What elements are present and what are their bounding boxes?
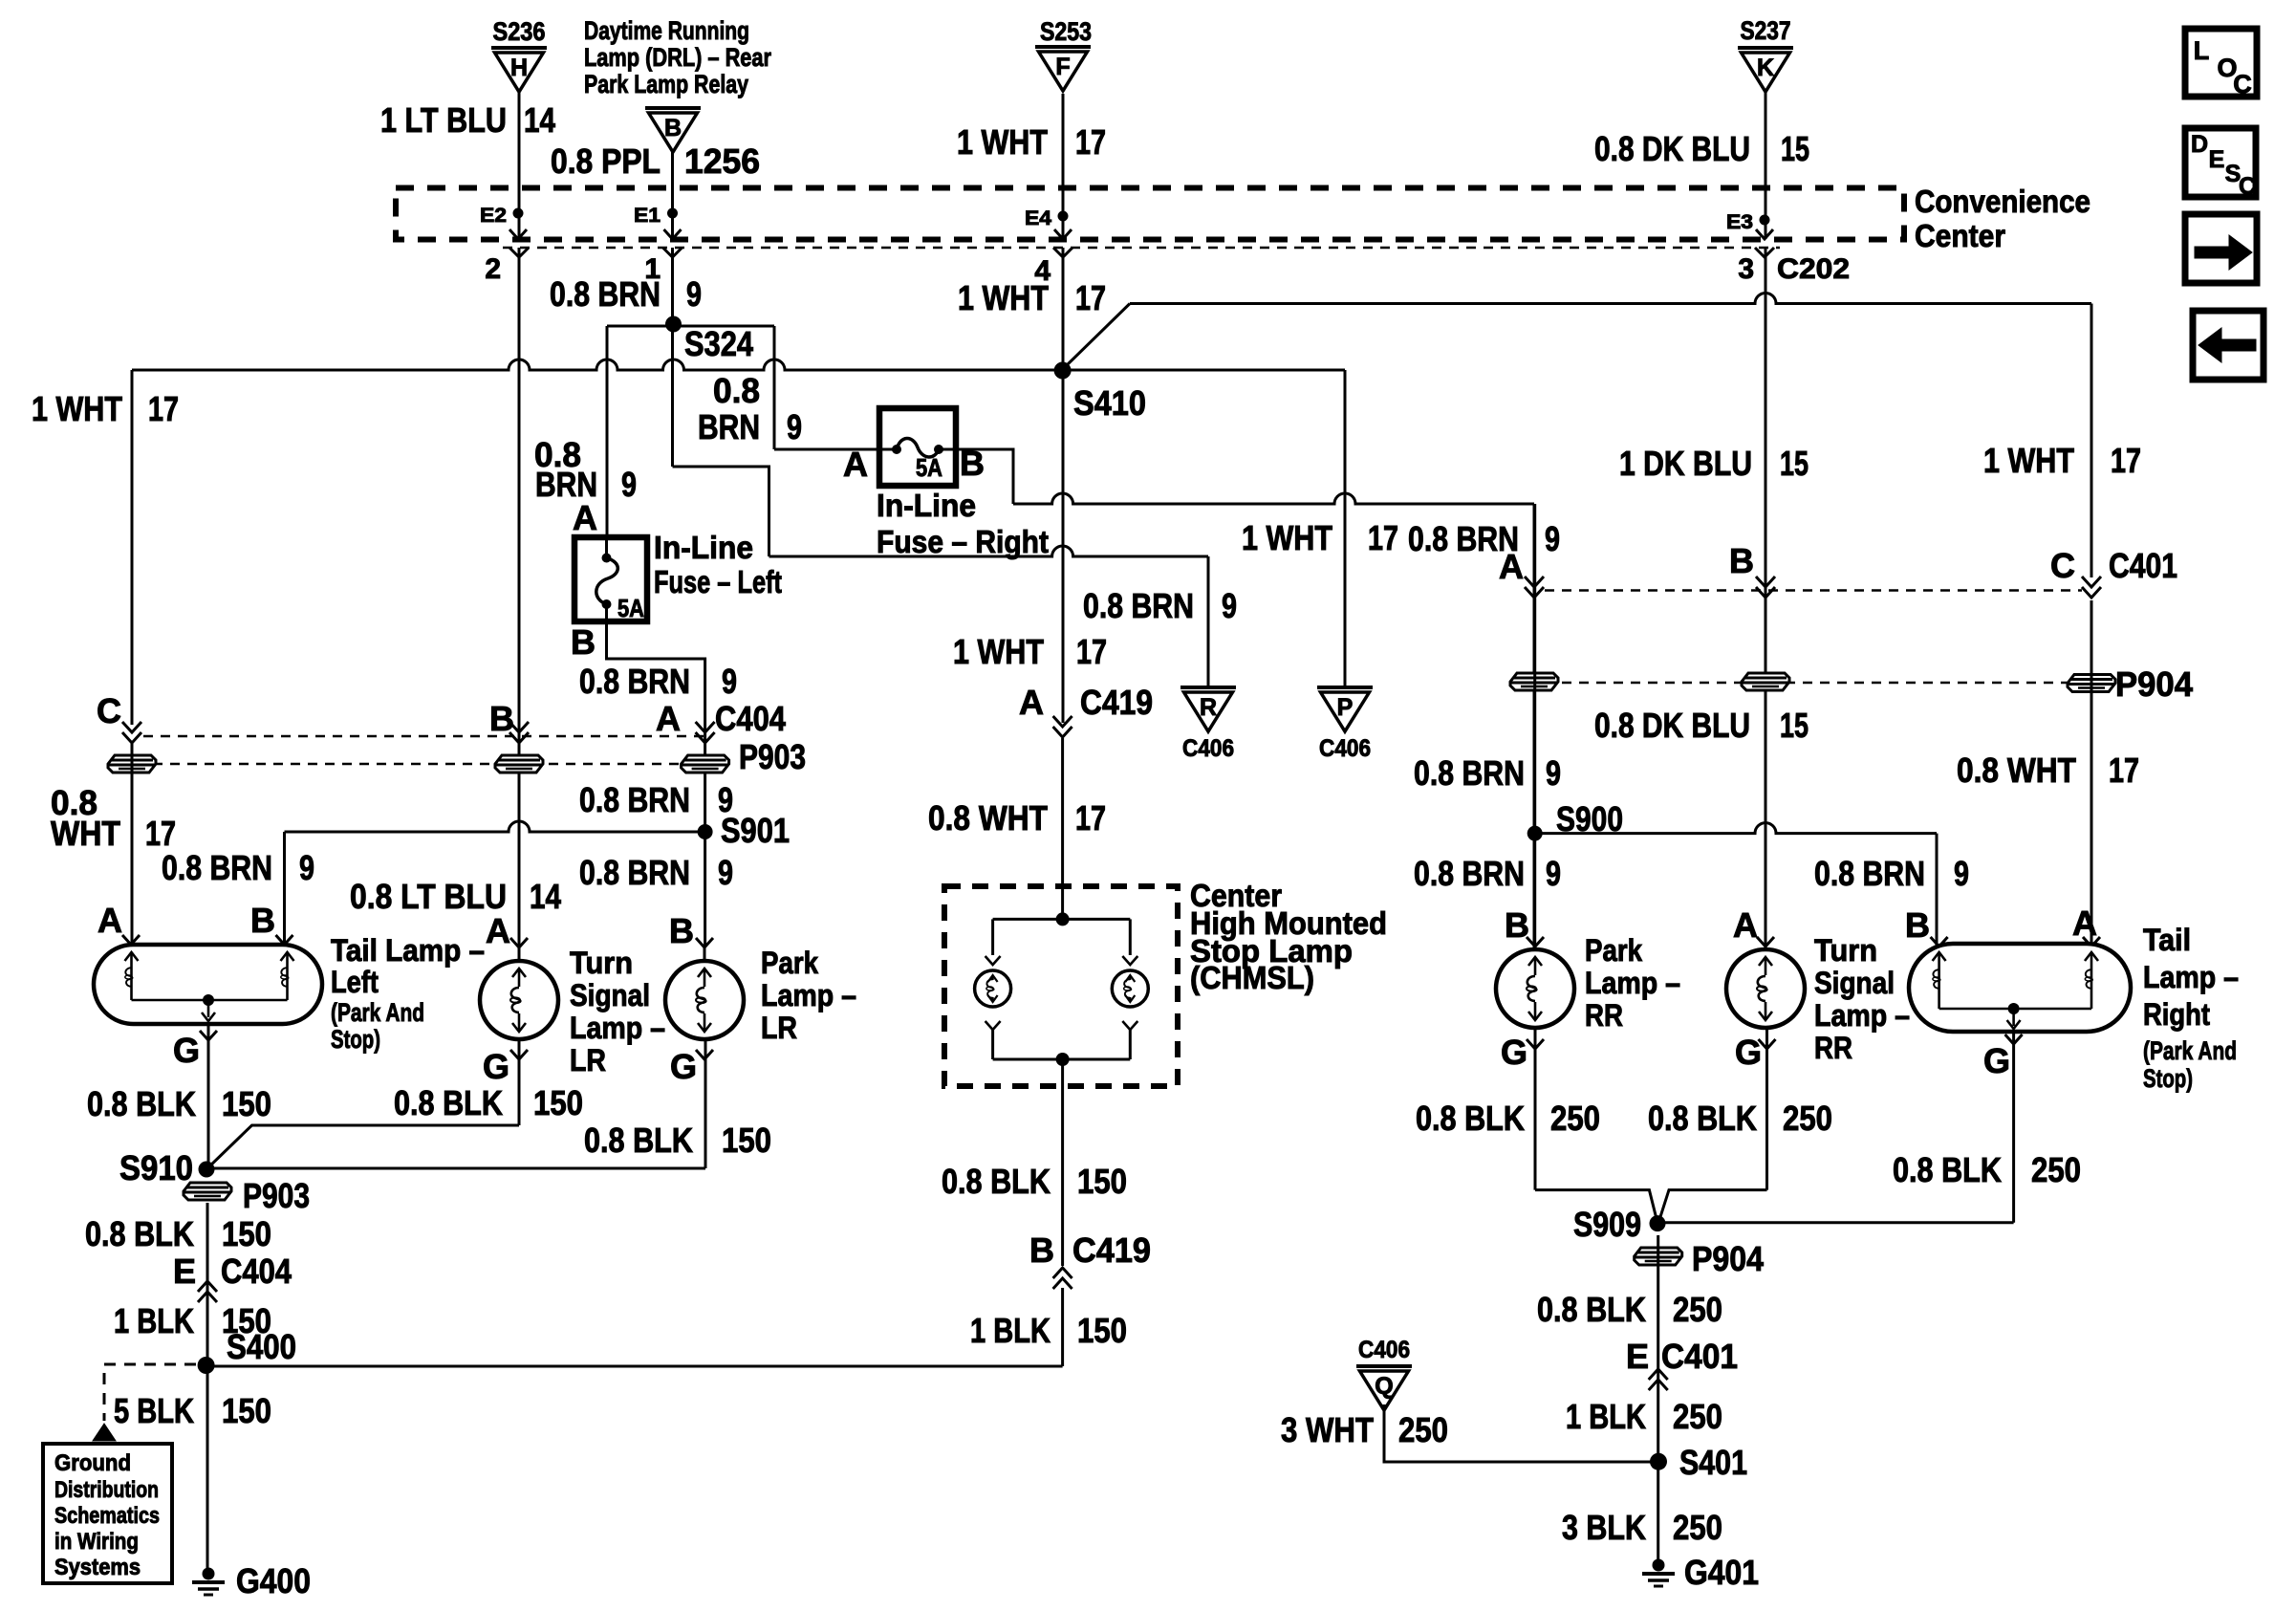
svg-text:B: B bbox=[1505, 905, 1529, 945]
svg-text:0.8 BRN: 0.8 BRN bbox=[1414, 854, 1525, 893]
svg-text:Tail Lamp –: Tail Lamp – bbox=[331, 933, 485, 968]
svg-text:9: 9 bbox=[299, 848, 314, 887]
svg-text:1 DK BLU: 1 DK BLU bbox=[1619, 444, 1752, 483]
svg-text:(Park And: (Park And bbox=[331, 998, 424, 1027]
svg-text:G: G bbox=[1983, 1041, 2010, 1080]
svg-text:17: 17 bbox=[1075, 122, 1106, 162]
svg-text:Stop): Stop) bbox=[331, 1025, 380, 1054]
svg-text:A: A bbox=[1019, 683, 1044, 722]
svg-text:0.8 BLK: 0.8 BLK bbox=[1893, 1150, 2002, 1189]
svg-text:E2: E2 bbox=[480, 205, 507, 227]
svg-text:1256: 1256 bbox=[684, 142, 760, 181]
svg-text:Lamp –: Lamp – bbox=[1814, 998, 1910, 1033]
svg-text:Q: Q bbox=[1375, 1373, 1393, 1400]
svg-text:B: B bbox=[1029, 1230, 1054, 1270]
svg-text:B: B bbox=[250, 901, 275, 940]
svg-text:A: A bbox=[1499, 547, 1524, 586]
svg-text:0.8 WHT: 0.8 WHT bbox=[1957, 751, 2076, 790]
svg-text:0.8 BRN: 0.8 BRN bbox=[162, 848, 272, 887]
svg-text:250: 250 bbox=[1673, 1508, 1722, 1547]
svg-text:250: 250 bbox=[1673, 1290, 1722, 1329]
svg-text:15: 15 bbox=[1780, 444, 1809, 483]
svg-text:E1: E1 bbox=[634, 205, 661, 227]
svg-text:C404: C404 bbox=[221, 1252, 292, 1291]
svg-text:0.8 BRN: 0.8 BRN bbox=[579, 853, 690, 892]
svg-text:0.8 BRN: 0.8 BRN bbox=[550, 274, 661, 314]
svg-text:0.8: 0.8 bbox=[713, 371, 760, 410]
svg-text:(CHMSL): (CHMSL) bbox=[1190, 960, 1314, 995]
svg-text:Signal: Signal bbox=[1814, 966, 1895, 1000]
svg-text:A: A bbox=[656, 699, 681, 738]
svg-text:150: 150 bbox=[222, 1084, 271, 1123]
svg-text:9: 9 bbox=[787, 407, 802, 446]
svg-text:0.8 BRN: 0.8 BRN bbox=[579, 662, 690, 701]
svg-text:A: A bbox=[843, 445, 868, 484]
svg-text:C202: C202 bbox=[1777, 253, 1850, 285]
svg-text:RR: RR bbox=[1585, 998, 1623, 1033]
svg-text:Turn: Turn bbox=[1814, 933, 1877, 968]
svg-text:3: 3 bbox=[1738, 253, 1754, 285]
svg-text:1 WHT: 1 WHT bbox=[1242, 518, 1332, 557]
svg-text:1 LT BLU: 1 LT BLU bbox=[380, 100, 507, 140]
svg-text:S401: S401 bbox=[1679, 1443, 1747, 1482]
svg-text:S324: S324 bbox=[684, 324, 753, 363]
svg-text:C: C bbox=[97, 691, 121, 730]
svg-text:0.8 BLK: 0.8 BLK bbox=[394, 1083, 503, 1122]
svg-text:Fuse – Left: Fuse – Left bbox=[654, 564, 782, 599]
svg-text:P904: P904 bbox=[1692, 1239, 1764, 1278]
svg-text:150: 150 bbox=[222, 1214, 271, 1253]
svg-text:G: G bbox=[173, 1031, 200, 1070]
svg-text:0.8 BLK: 0.8 BLK bbox=[1537, 1290, 1646, 1329]
svg-text:WHT: WHT bbox=[51, 814, 120, 853]
svg-text:5A: 5A bbox=[617, 594, 644, 622]
svg-text:C406: C406 bbox=[1358, 1337, 1410, 1363]
svg-text:C: C bbox=[2233, 70, 2252, 98]
svg-text:1 BLK: 1 BLK bbox=[114, 1301, 194, 1340]
svg-text:P903: P903 bbox=[739, 737, 806, 776]
svg-text:17: 17 bbox=[2111, 441, 2141, 480]
svg-text:150: 150 bbox=[722, 1121, 771, 1160]
svg-text:Lamp –: Lamp – bbox=[1585, 966, 1680, 1000]
svg-text:H: H bbox=[510, 54, 528, 81]
svg-text:150: 150 bbox=[1077, 1311, 1127, 1350]
svg-text:S253: S253 bbox=[1040, 17, 1092, 46]
svg-text:Right: Right bbox=[2143, 997, 2210, 1032]
svg-text:A: A bbox=[2072, 903, 2097, 943]
svg-text:0.8 BRN: 0.8 BRN bbox=[1083, 586, 1194, 625]
svg-text:B: B bbox=[1729, 541, 1754, 580]
svg-text:B: B bbox=[1905, 905, 1930, 945]
svg-text:0.8 PPL: 0.8 PPL bbox=[551, 142, 661, 181]
svg-text:Lamp –: Lamp – bbox=[2143, 960, 2239, 994]
svg-text:In-Line: In-Line bbox=[877, 488, 976, 523]
svg-text:S237: S237 bbox=[1741, 16, 1791, 45]
svg-text:Schematics: Schematics bbox=[54, 1503, 160, 1529]
svg-text:250: 250 bbox=[1398, 1410, 1448, 1449]
svg-text:E: E bbox=[2209, 146, 2225, 173]
svg-text:L: L bbox=[2194, 36, 2210, 65]
svg-text:C401: C401 bbox=[2109, 546, 2177, 585]
svg-text:5 BLK: 5 BLK bbox=[114, 1391, 194, 1430]
svg-text:250: 250 bbox=[1673, 1397, 1722, 1436]
svg-text:LR: LR bbox=[570, 1043, 606, 1078]
svg-text:14: 14 bbox=[530, 877, 561, 916]
svg-text:in Wiring: in Wiring bbox=[54, 1529, 139, 1555]
svg-text:0.8 BRN: 0.8 BRN bbox=[1814, 854, 1925, 893]
svg-text:17: 17 bbox=[1075, 278, 1106, 317]
svg-text:Signal: Signal bbox=[570, 978, 650, 1012]
svg-text:C419: C419 bbox=[1080, 683, 1153, 722]
svg-text:Fuse – Right: Fuse – Right bbox=[877, 524, 1049, 559]
svg-text:C404: C404 bbox=[715, 699, 786, 738]
svg-text:RR: RR bbox=[1814, 1031, 1852, 1065]
svg-text:BRN: BRN bbox=[535, 465, 597, 504]
svg-text:0.8 BLK: 0.8 BLK bbox=[1416, 1099, 1525, 1138]
svg-text:P903: P903 bbox=[243, 1176, 310, 1215]
svg-text:BRN: BRN bbox=[698, 407, 760, 446]
svg-text:0.8 WHT: 0.8 WHT bbox=[928, 798, 1048, 838]
svg-text:S410: S410 bbox=[1073, 383, 1146, 423]
svg-text:Park Lamp Relay: Park Lamp Relay bbox=[584, 70, 748, 98]
svg-text:150: 150 bbox=[222, 1391, 271, 1430]
svg-text:A: A bbox=[573, 498, 597, 537]
svg-text:5A: 5A bbox=[916, 453, 942, 482]
svg-text:C406: C406 bbox=[1182, 735, 1234, 762]
svg-text:Lamp –: Lamp – bbox=[761, 978, 856, 1012]
svg-text:0.8 BLK: 0.8 BLK bbox=[584, 1121, 693, 1160]
svg-text:0.8 BLK: 0.8 BLK bbox=[85, 1214, 194, 1253]
svg-text:C406: C406 bbox=[1319, 735, 1371, 762]
svg-text:A: A bbox=[1733, 905, 1758, 945]
svg-text:2: 2 bbox=[485, 253, 501, 285]
svg-text:9: 9 bbox=[1222, 586, 1237, 625]
svg-text:250: 250 bbox=[2031, 1150, 2081, 1189]
svg-text:Turn: Turn bbox=[570, 946, 633, 980]
svg-text:9: 9 bbox=[621, 465, 637, 504]
svg-text:S901: S901 bbox=[721, 811, 790, 850]
svg-text:S909: S909 bbox=[1573, 1205, 1641, 1244]
svg-text:0.8 BRN: 0.8 BRN bbox=[1414, 753, 1525, 793]
svg-text:150: 150 bbox=[1077, 1162, 1127, 1201]
svg-text:(Park And: (Park And bbox=[2143, 1036, 2237, 1065]
svg-text:K: K bbox=[1757, 54, 1774, 81]
svg-text:Lamp (DRL) – Rear: Lamp (DRL) – Rear bbox=[584, 43, 771, 72]
svg-text:9: 9 bbox=[718, 853, 733, 892]
svg-text:0.8 BLK: 0.8 BLK bbox=[1648, 1099, 1757, 1138]
svg-text:1 WHT: 1 WHT bbox=[953, 632, 1044, 671]
svg-text:G: G bbox=[1735, 1033, 1762, 1072]
svg-text:0.8 LT BLU: 0.8 LT BLU bbox=[350, 877, 507, 916]
svg-text:17: 17 bbox=[145, 814, 176, 853]
svg-text:C401: C401 bbox=[1661, 1337, 1738, 1376]
svg-text:S400: S400 bbox=[227, 1327, 296, 1366]
svg-text:9: 9 bbox=[1954, 854, 1969, 893]
svg-text:1 WHT: 1 WHT bbox=[1983, 441, 2074, 480]
svg-text:Stop): Stop) bbox=[2143, 1064, 2193, 1093]
svg-text:9: 9 bbox=[1545, 519, 1560, 558]
svg-text:9: 9 bbox=[1546, 854, 1561, 893]
svg-text:9: 9 bbox=[686, 274, 702, 314]
svg-text:Daytime Running: Daytime Running bbox=[584, 16, 749, 45]
svg-text:C419: C419 bbox=[1072, 1230, 1151, 1270]
svg-text:G: G bbox=[1501, 1033, 1527, 1072]
svg-text:0.8 DK BLU: 0.8 DK BLU bbox=[1594, 129, 1750, 168]
svg-text:E: E bbox=[173, 1252, 196, 1291]
svg-text:Park: Park bbox=[1585, 933, 1642, 968]
svg-text:0.8 BLK: 0.8 BLK bbox=[942, 1162, 1051, 1201]
svg-text:B: B bbox=[664, 115, 682, 142]
svg-text:LR: LR bbox=[761, 1011, 797, 1045]
svg-text:Ground: Ground bbox=[54, 1450, 131, 1476]
svg-text:G: G bbox=[670, 1047, 697, 1086]
svg-text:S236: S236 bbox=[493, 17, 546, 46]
svg-text:250: 250 bbox=[1550, 1099, 1600, 1138]
svg-text:C: C bbox=[2239, 173, 2256, 200]
svg-text:B: B bbox=[669, 911, 694, 950]
svg-text:0.8 BLK: 0.8 BLK bbox=[87, 1084, 196, 1123]
svg-text:D: D bbox=[2191, 131, 2208, 158]
svg-text:1 BLK: 1 BLK bbox=[970, 1311, 1051, 1350]
svg-text:G400: G400 bbox=[236, 1561, 311, 1600]
svg-text:C: C bbox=[2050, 546, 2075, 585]
svg-text:S910: S910 bbox=[119, 1148, 193, 1187]
svg-text:P904: P904 bbox=[2115, 664, 2193, 704]
svg-text:1 BLK: 1 BLK bbox=[1566, 1397, 1646, 1436]
svg-text:1 WHT: 1 WHT bbox=[957, 122, 1048, 162]
svg-text:G401: G401 bbox=[1684, 1553, 1759, 1592]
svg-text:1 WHT: 1 WHT bbox=[958, 278, 1049, 317]
svg-text:Park: Park bbox=[761, 946, 818, 980]
svg-text:14: 14 bbox=[524, 100, 555, 140]
svg-text:17: 17 bbox=[1076, 632, 1107, 671]
svg-text:F: F bbox=[1055, 54, 1070, 80]
svg-text:3 WHT: 3 WHT bbox=[1281, 1410, 1374, 1449]
svg-text:G: G bbox=[483, 1047, 509, 1086]
svg-text:A: A bbox=[486, 911, 510, 950]
svg-text:Left: Left bbox=[331, 965, 379, 999]
svg-text:Tail: Tail bbox=[2143, 923, 2191, 957]
svg-text:Distribution: Distribution bbox=[54, 1477, 159, 1503]
svg-text:250: 250 bbox=[1783, 1099, 1832, 1138]
svg-text:R: R bbox=[1200, 694, 1217, 721]
svg-text:Center: Center bbox=[1915, 218, 2005, 253]
svg-text:E4: E4 bbox=[1025, 207, 1051, 229]
svg-text:0.8 DK BLU: 0.8 DK BLU bbox=[1594, 706, 1750, 745]
svg-text:17: 17 bbox=[148, 389, 179, 428]
svg-text:Convenience: Convenience bbox=[1915, 184, 2090, 219]
svg-text:A: A bbox=[97, 901, 122, 940]
svg-text:17: 17 bbox=[1075, 798, 1106, 838]
svg-text:1 WHT: 1 WHT bbox=[32, 389, 122, 428]
svg-text:E: E bbox=[1626, 1337, 1649, 1376]
svg-text:150: 150 bbox=[533, 1083, 583, 1122]
svg-text:E3: E3 bbox=[1726, 211, 1753, 233]
svg-text:P: P bbox=[1337, 694, 1354, 721]
svg-text:15: 15 bbox=[1781, 129, 1809, 168]
svg-text:B: B bbox=[571, 622, 596, 662]
svg-text:In-Line: In-Line bbox=[654, 530, 753, 565]
svg-text:0.8 BRN: 0.8 BRN bbox=[579, 780, 690, 819]
svg-text:Systems: Systems bbox=[54, 1555, 141, 1580]
svg-text:17: 17 bbox=[2109, 751, 2139, 790]
svg-text:Lamp –: Lamp – bbox=[570, 1011, 665, 1045]
svg-text:3 BLK: 3 BLK bbox=[1562, 1508, 1646, 1547]
svg-text:17: 17 bbox=[1368, 518, 1398, 557]
svg-text:9: 9 bbox=[1546, 753, 1561, 793]
svg-text:9: 9 bbox=[722, 662, 737, 701]
svg-text:15: 15 bbox=[1780, 706, 1809, 745]
